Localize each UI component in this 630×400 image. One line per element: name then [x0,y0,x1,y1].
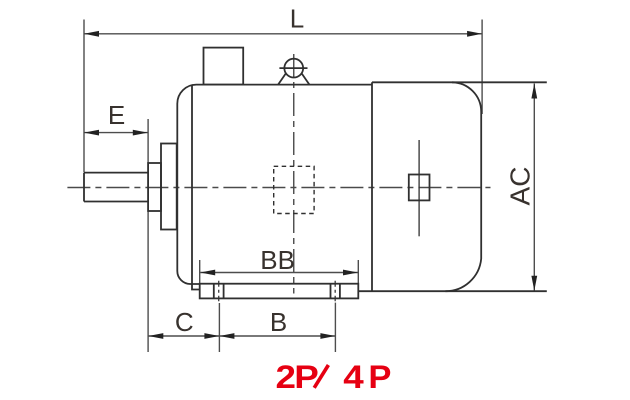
svg-text:P: P [294,360,319,395]
svg-text:AC: AC [505,167,536,206]
svg-text:L: L [290,4,304,34]
svg-text:2: 2 [276,360,296,395]
svg-text:B: B [270,307,287,337]
svg-text:4: 4 [343,360,363,395]
svg-text:C: C [175,307,194,337]
svg-text:P: P [368,360,391,396]
svg-text:BB: BB [260,245,295,275]
svg-text:E: E [108,100,125,130]
